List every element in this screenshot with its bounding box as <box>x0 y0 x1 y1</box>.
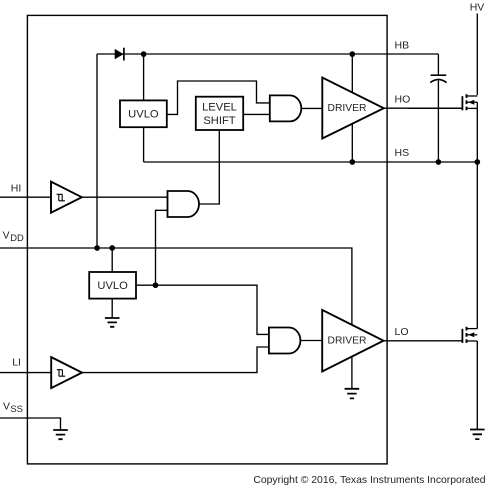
svg-text:LEVEL: LEVEL <box>202 102 237 114</box>
AND gate A3 (low side) <box>269 328 301 354</box>
node: HS return dot <box>349 159 355 165</box>
node: diode-HB junction dot <box>141 51 147 57</box>
svg-text:HV: HV <box>470 2 485 14</box>
node: cap-HS dot <box>436 159 442 165</box>
ground (DRIVER2) <box>345 389 360 399</box>
wire UVLO2 branch up to AND2 <box>156 210 168 285</box>
wire Q1 source/body to HS <box>476 102 478 328</box>
svg-text:HS: HS <box>395 147 410 159</box>
svg-text:DRIVER: DRIVER <box>328 336 367 347</box>
transistor Q1 (high-side NMOS) <box>408 94 477 110</box>
ground (power stage) <box>470 430 485 440</box>
wire HV to Q1 drain <box>476 14 478 96</box>
driver U3 DRIVER (high side) <box>322 78 384 139</box>
wire LI buffer output to AND3 <box>82 347 269 373</box>
wire VDD to UVLO2 <box>111 248 113 272</box>
node: UVLO2 output branch dot <box>153 282 159 288</box>
wire DRIVER1 return to HS <box>351 124 353 162</box>
pin label VSS <box>3 402 23 414</box>
wire VSS pin to ground <box>0 418 61 430</box>
svg-text:V: V <box>3 231 10 242</box>
svg-text:SHIFT: SHIFT <box>203 115 235 127</box>
svg-text:Copyright © 2016, Texas Instru: Copyright © 2016, Texas Instruments Inco… <box>253 475 485 486</box>
buffer U5 (LI input, schmitt) <box>51 357 82 388</box>
wire DRIVER1 supply from HB <box>351 54 353 92</box>
svg-text:SS: SS <box>10 403 23 414</box>
wire Q2 source to ground <box>476 341 478 429</box>
ground (UVLO2) <box>105 299 120 327</box>
svg-text:HO: HO <box>395 94 411 106</box>
wire HI buffer output to AND2 <box>82 196 168 198</box>
bootstrap capacitor C <box>430 54 446 162</box>
svg-text:UVLO: UVLO <box>97 280 128 292</box>
wire HS rail <box>144 161 478 163</box>
wire AND3 output to DRIVER2 <box>300 340 322 342</box>
svg-text:HB: HB <box>395 39 410 51</box>
IC boundary box <box>27 15 387 464</box>
wire HI pin <box>0 196 51 198</box>
node: right rail HS dot <box>474 159 480 165</box>
svg-text:UVLO: UVLO <box>128 109 159 121</box>
buffer U4 (HI input, schmitt) <box>51 182 82 213</box>
wire LI pin <box>0 372 51 374</box>
wire HB rail (diode line, y=54) <box>97 53 438 55</box>
svg-text:LI: LI <box>12 357 21 369</box>
LEVEL SHIFT block <box>196 97 243 130</box>
node: VDD diode-branch dot <box>94 245 100 251</box>
wire LO output <box>384 340 463 342</box>
wire AND2 output to LEVEL SHIFT <box>199 130 219 204</box>
wire AND1 output to DRIVER1 <box>301 107 322 109</box>
wire VDD-to-diode vertical <box>96 54 98 248</box>
AND gate A1 (high side) <box>270 95 302 121</box>
node: HB supply dot <box>349 51 355 57</box>
node: VDD UVLO2-branch dot <box>109 245 115 251</box>
wire VDD rail <box>0 248 352 325</box>
UVLO U2 (low side) <box>89 272 136 299</box>
wire junction-to-UVLO1 <box>143 54 145 100</box>
wire UVLO1-to-HS vertical <box>143 127 145 162</box>
AND gate A2 (HI path) <box>168 191 200 217</box>
svg-text:LO: LO <box>395 326 409 338</box>
svg-text:DD: DD <box>10 232 24 243</box>
wire UVLO2 output to AND3 <box>136 285 269 334</box>
UVLO U1 (high side) <box>120 100 167 127</box>
ground (VSS) <box>53 430 68 439</box>
wire DRIVER2 ground <box>351 357 353 389</box>
svg-text:DRIVER: DRIVER <box>328 103 367 114</box>
wire UVLO1 output to AND1 <box>167 81 270 114</box>
wire HO output <box>384 107 463 109</box>
diode D (bootstrap) <box>115 48 124 61</box>
svg-text:HI: HI <box>11 182 21 194</box>
driver U6 DRIVER (low side) <box>322 310 383 372</box>
svg-text:V: V <box>3 402 10 413</box>
wire LEVEL SHIFT output to AND1 <box>243 113 270 115</box>
pin label VDD <box>3 231 24 243</box>
transistor Q2 (low-side NMOS) <box>462 327 477 343</box>
